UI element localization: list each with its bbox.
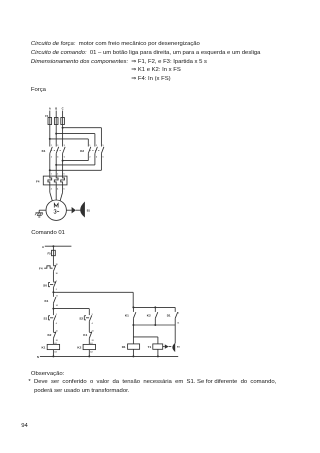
- node bus top left: [132, 306, 134, 308]
- svg-text:T1: T1: [148, 345, 152, 349]
- svg-text:A: A: [42, 245, 44, 249]
- svg-text:4: 4: [56, 322, 57, 325]
- svg-text:2: 2: [51, 189, 52, 191]
- fuse F5: [47, 250, 55, 255]
- svg-text:A2: A2: [54, 351, 56, 354]
- wire S0 to J1: [52, 288, 54, 293]
- svg-text:1: 1: [51, 145, 52, 147]
- svg-text:K1: K1: [41, 345, 45, 349]
- wire branch to K2 A: [50, 138, 89, 140]
- wire F4 to S0: [52, 271, 54, 282]
- wire brake bus top: [133, 306, 175, 308]
- node K2 coil on N rail: [88, 355, 90, 357]
- svg-text:F5: F5: [47, 251, 51, 255]
- svg-text:21: 21: [56, 331, 58, 333]
- svg-text:14: 14: [56, 304, 58, 307]
- wire loop to B1 box: [133, 337, 158, 344]
- node K2 return junction 3: [49, 169, 51, 171]
- svg-text:2: 2: [89, 157, 90, 159]
- wire A to F5: [52, 246, 54, 250]
- wire K2 NC to K1 coil: [52, 338, 54, 344]
- node C (phase label, forca): [62, 106, 64, 117]
- node branch junction B: [55, 133, 57, 135]
- wire phase C (K1 to F4): [62, 153, 64, 176]
- wire bus to D1: [132, 325, 134, 344]
- brake B1 (mechanical brake, comando): [163, 325, 181, 352]
- node K2 return junction 2: [55, 164, 57, 166]
- svg-text:3: 3: [56, 314, 57, 316]
- contactor K1 contact 1-2: [50, 145, 53, 159]
- wire K1 NC to K2 coil: [88, 338, 90, 344]
- wire B1 box to N rail: [157, 349, 159, 356]
- contactor K2 contact 3-4: [95, 145, 98, 159]
- svg-text:95: 95: [56, 264, 58, 266]
- brake B1 (mechanical brake, forca): [66, 202, 90, 218]
- mech link K1 (dashed): [51, 149, 62, 151]
- contactor K1 contact 13-14 (seal): [44, 292, 57, 307]
- svg-text:A1: A1: [54, 342, 56, 345]
- coil K2: [77, 342, 95, 354]
- svg-text:6: 6: [64, 189, 65, 191]
- wire phase C (fuse to K1): [62, 125, 64, 147]
- svg-text:6: 6: [103, 157, 104, 159]
- wire K2 coil to N rail: [88, 350, 90, 357]
- node J2: [52, 308, 54, 310]
- node J1: [52, 291, 54, 293]
- svg-text:5: 5: [64, 145, 65, 147]
- node bus bottom mid: [154, 324, 156, 326]
- svg-text:D1: D1: [122, 345, 126, 349]
- wire branch to K2 C: [63, 127, 102, 129]
- pushbutton S0 (NC, desliga): [43, 281, 57, 292]
- node D1 on N rail: [132, 355, 134, 357]
- svg-text:4: 4: [57, 188, 59, 191]
- contactor K1 contact 3-4: [56, 145, 59, 159]
- wire S1 to K2 NC: [52, 321, 54, 332]
- mech link K2 (dashed): [89, 149, 100, 151]
- node bus top mid: [154, 306, 156, 308]
- svg-text:B1: B1: [177, 346, 181, 348]
- fuse F3: [61, 118, 65, 125]
- wire F5 to F4 contact: [52, 256, 54, 266]
- wire K2 return 1: [63, 153, 89, 160]
- svg-text:3: 3: [92, 314, 93, 316]
- svg-text:22: 22: [56, 340, 58, 342]
- svg-text:K1: K1: [42, 149, 46, 153]
- wire F4 to motor C: [60, 185, 63, 201]
- node B (phase label, forca): [55, 106, 57, 117]
- svg-text:3: 3: [57, 145, 58, 147]
- svg-text:K2: K2: [80, 149, 84, 153]
- node branch junction C: [62, 127, 64, 129]
- fuse F2: [54, 118, 58, 125]
- node K2 return junction 1: [62, 160, 64, 162]
- svg-text:1: 1: [51, 173, 52, 175]
- svg-text:K1: K1: [44, 299, 48, 303]
- wire phase B (K1 to F4): [55, 153, 57, 176]
- svg-text:N: N: [37, 355, 39, 359]
- svg-text:6: 6: [64, 157, 65, 159]
- label F1 (fuse group label): [45, 114, 49, 118]
- label K1: [42, 149, 46, 153]
- svg-text:4: 4: [96, 156, 98, 159]
- svg-text:S2: S2: [79, 317, 83, 321]
- svg-text:5: 5: [64, 173, 65, 175]
- contactor K2 contact 21-22 (interlock): [47, 331, 57, 342]
- svg-text:96: 96: [56, 273, 58, 275]
- ground (motor earth): [35, 210, 46, 217]
- overload relay F4: [36, 176, 67, 185]
- pushbutton S2 (NO, liga esquerda): [79, 314, 92, 325]
- svg-text:3: 3: [96, 145, 97, 147]
- wire D1 to N rail: [132, 349, 134, 356]
- svg-text:B: B: [55, 106, 57, 110]
- wire J2 to branch 2: [53, 309, 89, 316]
- fuse F1: [48, 118, 52, 125]
- svg-text:F4: F4: [36, 180, 40, 184]
- label K2: [80, 149, 84, 153]
- node bus bottom left: [132, 324, 134, 326]
- contactor D1 contact 13-14 (brake feed): [167, 307, 179, 325]
- wire K1 seal to J2: [52, 303, 54, 308]
- contactor K2 contact 1-2: [88, 145, 91, 159]
- node B1 on N rail: [157, 355, 159, 357]
- motor M1 (M 3~): [46, 200, 66, 220]
- svg-text:D1: D1: [167, 314, 171, 318]
- svg-text:S0: S0: [43, 283, 47, 287]
- wire N rail: [37, 355, 178, 359]
- wire S2 to K1 NC: [88, 321, 90, 332]
- svg-text:13: 13: [177, 312, 179, 314]
- wire K2 return 3: [50, 153, 102, 170]
- svg-text:13: 13: [56, 296, 58, 298]
- coil K1: [41, 342, 59, 354]
- node branch junction A: [49, 138, 51, 140]
- svg-text:3: 3: [57, 173, 58, 175]
- wire K2 drop A: [87, 139, 89, 147]
- svg-text:A1: A1: [90, 342, 92, 345]
- wire J1 feed to brake section: [53, 292, 133, 307]
- svg-text:2: 2: [51, 157, 52, 159]
- node A (phase label, forca): [49, 106, 51, 117]
- svg-text:A: A: [49, 106, 51, 110]
- pins 1 3 5 (above F4): [51, 173, 65, 175]
- svg-text:4: 4: [92, 322, 93, 325]
- contactor K2 contact 13-14 (brake feed): [147, 307, 158, 325]
- node junction on A line: [52, 245, 54, 247]
- svg-text:1: 1: [56, 281, 57, 283]
- wire brake bus bottom: [133, 324, 175, 326]
- wire phase A (fuse to K1): [49, 125, 51, 147]
- contactor K2 contact 5-6: [101, 145, 104, 159]
- svg-text:K2: K2: [147, 314, 151, 318]
- svg-text:B1: B1: [87, 209, 91, 212]
- svg-text:21: 21: [92, 331, 94, 333]
- contactor K1 contact 5-6: [63, 145, 66, 159]
- wire K2 drop B: [94, 134, 96, 147]
- svg-text:1: 1: [89, 145, 90, 147]
- wire F4 to motor A: [50, 185, 53, 201]
- contactor K1 contact 21-22 (interlock): [83, 331, 93, 342]
- pins 2 4 6 (below F4): [51, 188, 65, 191]
- node K1 coil on N rail: [52, 355, 54, 357]
- svg-text:K2: K2: [77, 345, 81, 349]
- svg-text:C: C: [62, 106, 64, 110]
- svg-text:F4: F4: [39, 266, 43, 270]
- wire F4 to motor B: [55, 185, 57, 200]
- wire phase B (fuse to K1): [55, 125, 57, 147]
- svg-text:K2: K2: [47, 333, 51, 337]
- svg-text:4: 4: [57, 156, 59, 159]
- node A (phase feed, comando): [42, 245, 71, 249]
- svg-text:2: 2: [56, 289, 57, 291]
- svg-text:A2: A2: [90, 351, 92, 354]
- brake coil T1: [148, 344, 163, 349]
- svg-text:K1: K1: [125, 314, 129, 318]
- rectifier D1: [122, 344, 140, 349]
- thermal contact F4 95-96: [39, 264, 58, 275]
- wire K1 coil to N rail: [52, 350, 54, 357]
- pushbutton S1 (NO, liga direita): [43, 309, 56, 326]
- svg-text:S1: S1: [43, 317, 47, 321]
- svg-text:K1: K1: [83, 333, 87, 337]
- wire phase A (K1 to F4): [49, 153, 51, 176]
- svg-text:22: 22: [92, 340, 94, 342]
- svg-text:14: 14: [177, 321, 179, 324]
- contactor K1 contact 13-14 (brake feed): [125, 307, 136, 325]
- wire branch to K2 B: [56, 133, 95, 135]
- wire K2 drop C: [100, 128, 102, 147]
- svg-text:5: 5: [103, 145, 104, 147]
- wire K2 return 2: [56, 153, 95, 165]
